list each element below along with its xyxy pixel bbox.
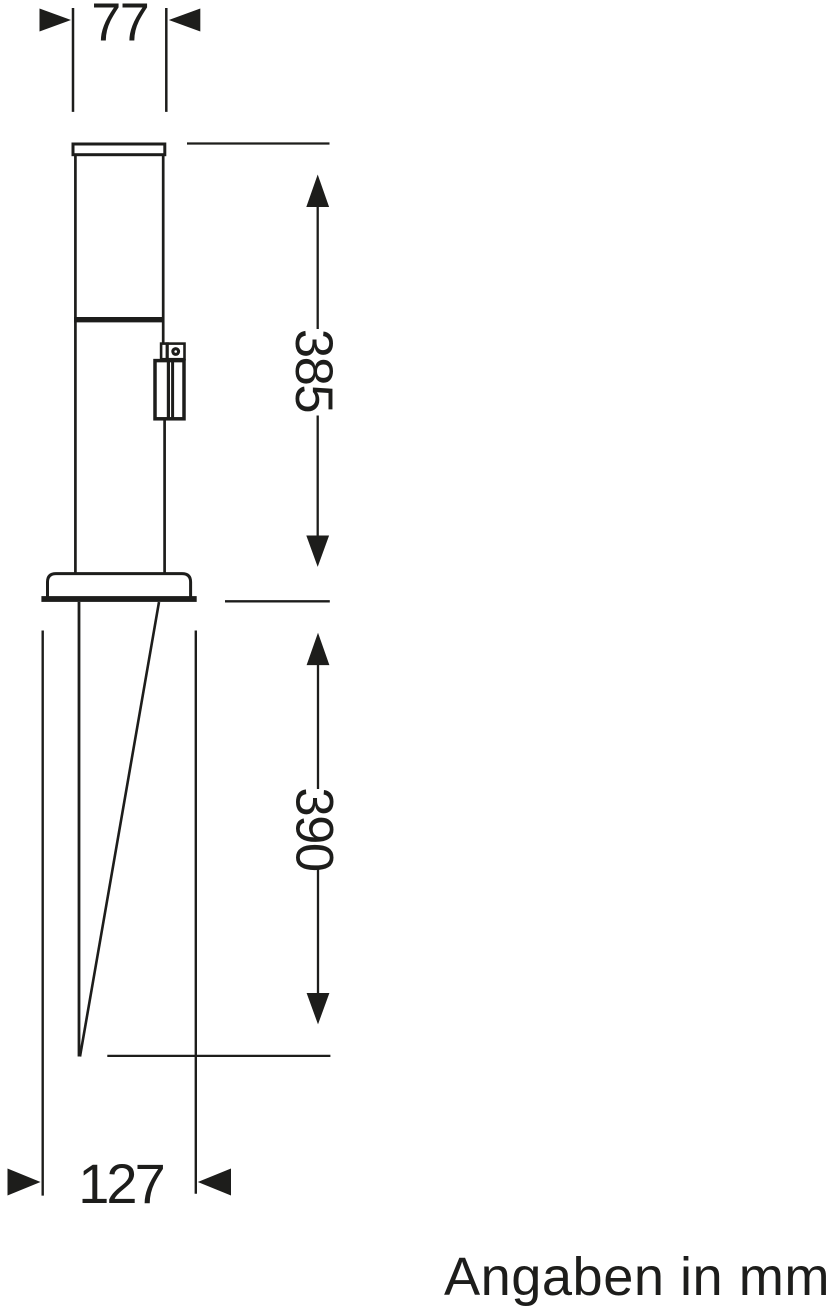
dimension 127: right extension line [195,631,197,1194]
dimension 385: up arrow [306,175,329,208]
svg-text:385: 385 [284,329,343,413]
latch screw [171,347,180,356]
dimension 390: up arrow [307,633,330,665]
dimension 127: value label [78,1152,163,1215]
svg-text:127: 127 [78,1152,163,1215]
latch top box [161,342,184,360]
svg-text:77: 77 [91,0,148,53]
dimension 385: value label (rotated) [284,329,343,413]
dimension 127: right arrow [198,1169,231,1196]
bollard top cap [73,144,165,155]
dimension 77: left arrow [40,9,72,32]
dimension 390: line upper segment [317,663,319,789]
dimension 77: left extension line [72,8,75,112]
dimension 385: down arrow [306,536,329,567]
dimension 77: value label [91,0,148,53]
latch main box [155,360,184,419]
flange bottom bar [41,596,196,602]
dimension 77: right extension line [165,8,168,112]
flange [48,574,191,599]
bollard body right edge [163,156,164,574]
dimension 390: value label (rotated) [285,787,344,871]
dimension 127: left extension line [42,631,44,1196]
bollard glass/body separation line [74,317,165,322]
spike diagonal edge [80,602,159,1057]
bollard body left edge [74,156,77,574]
svg-text:Angaben in mm: Angaben in mm [444,1247,830,1307]
reference line top (lamp top level) [187,142,330,144]
svg-text:390: 390 [285,787,344,871]
dimension 390: down arrow [307,993,330,1024]
reference line bottom (spike tip level) [107,1055,330,1057]
dimension 77: right arrow [169,9,201,32]
dimension 385: line lower segment [317,416,319,538]
dimension 385: line upper segment [317,205,319,329]
dimension 127: left arrow [8,1169,41,1196]
spike left edge [78,602,81,1057]
reference line middle (flange bottom level) [225,600,330,602]
caption: Angaben in mm [444,1247,830,1307]
dimension 390: line lower segment [317,870,319,995]
